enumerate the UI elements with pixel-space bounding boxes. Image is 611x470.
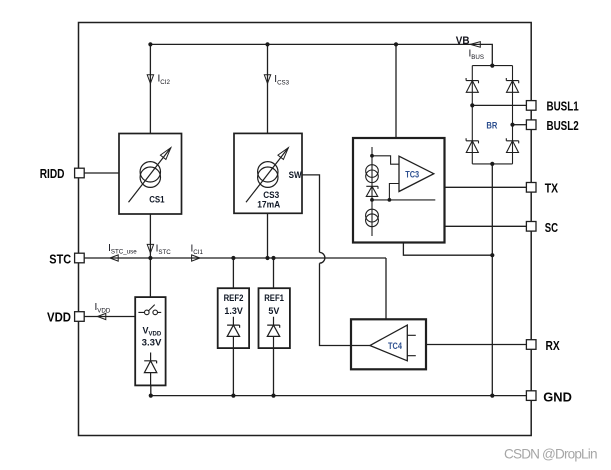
svg-text:REF1: REF1 bbox=[264, 293, 284, 303]
current arrow ISTC (down) bbox=[147, 244, 153, 253]
wire: VVDD bottom to ground rail bbox=[150, 385, 152, 395]
pin BUSL1 pad bbox=[526, 101, 536, 111]
svg-text:RX: RX bbox=[546, 338, 560, 353]
CS1 adjustment arrow bbox=[129, 148, 171, 203]
node: top rail junction at CS1 bbox=[148, 42, 152, 46]
BR branch wires bbox=[472, 66, 512, 164]
current arrow ISTC_use (left) bbox=[110, 255, 118, 261]
TC3 current source I2 bbox=[366, 209, 379, 222]
pin STC pad bbox=[75, 253, 85, 263]
node: TC3 internal top bbox=[370, 154, 374, 158]
CS3 current-source circles bbox=[258, 162, 278, 182]
current arrow ICS3 (down) bbox=[264, 75, 270, 84]
wire: SW net from CS3 to TC4 with hop over STC line bbox=[302, 175, 370, 346]
BR top wire bbox=[472, 65, 512, 67]
TC3 comparator triangle bbox=[399, 156, 434, 191]
node: TC3 internal diode bottom bbox=[370, 198, 374, 202]
CS3 adjustment arrow bbox=[246, 148, 288, 203]
node: STC at CS1 bbox=[148, 256, 152, 260]
wire: REF2 bottom to ground rail bbox=[232, 348, 234, 396]
TC3 internal bias rail bbox=[371, 147, 373, 236]
svg-text:BUSL2: BUSL2 bbox=[547, 118, 579, 133]
svg-text:RIDD: RIDD bbox=[40, 166, 65, 181]
wire: TC3 bottom exit to node bbox=[403, 243, 492, 256]
wire: REF1 bottom to ground rail bbox=[273, 348, 275, 396]
reference REF1 5V bbox=[259, 288, 290, 348]
svg-text:3.3V: 3.3V bbox=[142, 337, 162, 347]
wire: TC3 to TX pin bbox=[445, 186, 527, 188]
reference REF2 1.3V bbox=[218, 288, 249, 348]
CS1 current-source circles bbox=[140, 162, 160, 182]
TC4 comparator triangle bbox=[370, 325, 407, 361]
wire: CS3 bottom to STC node bbox=[267, 213, 269, 258]
node: bridge top bbox=[490, 64, 494, 68]
comparator block TC4 bbox=[351, 319, 426, 369]
wire: BUSL1 to bridge left node bbox=[472, 104, 526, 106]
node: bridge bottom bbox=[490, 162, 494, 166]
diode BR upper-left bbox=[466, 78, 478, 92]
current arrow ICI2 (down) bbox=[147, 75, 153, 84]
pin RIDD pad bbox=[75, 168, 85, 178]
wire: TC3 to SC pin bbox=[445, 225, 527, 227]
wire: bridge bottom vertical to ground rail bbox=[491, 164, 493, 396]
node: ground rail at VVDD bbox=[149, 394, 153, 398]
svg-text:SC: SC bbox=[545, 220, 559, 235]
VVDD zener diode bbox=[144, 353, 157, 386]
node: bridge right (BUSL2) bbox=[510, 123, 514, 127]
node: TC3 internal inverting input bbox=[388, 198, 392, 202]
TC3 inverting input wire bbox=[389, 184, 399, 200]
current arrow ICI1 (right) bbox=[192, 255, 200, 261]
current arrow VB (left on top rail) bbox=[470, 42, 480, 48]
wire: BUSL2 to bridge right node bbox=[513, 124, 527, 126]
TC3 non-inverting input wire bbox=[372, 156, 399, 164]
node: top rail junction at CS3 bbox=[265, 42, 269, 46]
current source CS3 bbox=[234, 133, 302, 213]
wire: TC3 top drop bbox=[395, 44, 397, 138]
diode BR lower-right bbox=[506, 138, 518, 152]
svg-text:BR: BR bbox=[486, 120, 497, 130]
svg-text:CS1: CS1 bbox=[149, 194, 164, 204]
wire: TC4 output to RX pin bbox=[426, 344, 527, 346]
svg-text:REF2: REF2 bbox=[224, 293, 244, 303]
wire: STC horizontal line bbox=[84, 257, 386, 259]
wire: CS1 top drop bbox=[149, 44, 151, 133]
wire: VDD pin to VVDD regulator bbox=[84, 316, 135, 318]
node: ground rail at REF2 bbox=[231, 394, 235, 398]
node: STC at REF1 bbox=[271, 256, 275, 260]
TC3 diode bbox=[366, 186, 378, 196]
diode BR upper-right bbox=[506, 78, 518, 92]
wire: STC node down to VVDD top bbox=[149, 258, 151, 297]
TC4 input stubs bbox=[407, 335, 416, 355]
svg-text:BUSL1: BUSL1 bbox=[547, 99, 579, 114]
pin GND pad bbox=[526, 391, 536, 401]
svg-text:TX: TX bbox=[545, 181, 559, 196]
pin RX pad bbox=[526, 340, 536, 350]
wire: top supply rail bbox=[150, 44, 492, 65]
REF1 zener diode bbox=[267, 317, 280, 348]
diode BR lower-left bbox=[466, 138, 478, 152]
pin BUSL2 pad bbox=[526, 120, 536, 130]
node: ground rail at bridge vertical bbox=[490, 394, 494, 398]
svg-text:TC3: TC3 bbox=[405, 170, 419, 180]
BR bottom wire bbox=[472, 163, 512, 165]
wire: ground rail bbox=[151, 395, 527, 397]
wire: CS3 top drop bbox=[267, 44, 269, 133]
wire: REF2 top to STC line bbox=[232, 258, 234, 288]
pin TX pad bbox=[526, 183, 536, 193]
wire: REF1 top to STC line bbox=[273, 258, 275, 288]
bridge rectifier BR bbox=[466, 66, 519, 164]
TC4 output wire to apex bbox=[351, 345, 370, 347]
TC3 current source I1 bbox=[366, 165, 379, 178]
svg-text:1.3V: 1.3V bbox=[224, 306, 242, 316]
node: top rail junction at TC3 bbox=[394, 42, 398, 46]
wire: STC corner down to TC4 top bbox=[385, 258, 387, 319]
svg-text:STC: STC bbox=[49, 251, 71, 266]
svg-text:VB: VB bbox=[456, 35, 470, 47]
svg-text:CSDN @DropLin: CSDN @DropLin bbox=[504, 447, 598, 462]
svg-text:SW: SW bbox=[289, 170, 302, 180]
svg-text:GND: GND bbox=[543, 389, 572, 404]
outer IC boundary box bbox=[79, 23, 532, 436]
regulator block VVDD 3.3V bbox=[135, 297, 165, 385]
pin SC pad bbox=[526, 222, 536, 232]
node: ground rail at REF1 bbox=[271, 394, 275, 398]
comparator block TC3 bbox=[353, 138, 445, 243]
node: STC at CS3 bbox=[265, 256, 269, 260]
wire: RIDD to CS1 bbox=[84, 172, 119, 174]
current source CS1 bbox=[119, 134, 182, 215]
REF2 zener diode bbox=[227, 317, 240, 348]
svg-text:17mA: 17mA bbox=[257, 199, 280, 209]
current arrow IVDD (left) bbox=[98, 313, 106, 319]
pin VDD pad bbox=[75, 312, 85, 322]
svg-text:TC4: TC4 bbox=[388, 341, 402, 351]
node: STC at REF2 bbox=[231, 256, 235, 260]
TC3 internal reference wire bbox=[372, 199, 435, 201]
VVDD switch S1 bbox=[138, 305, 161, 313]
svg-text:5V: 5V bbox=[268, 306, 279, 316]
node: TC3 bottom to bridge vertical bbox=[490, 253, 494, 257]
wire: CS1 bottom to STC node bbox=[149, 214, 151, 258]
node: bridge left (BUSL1) bbox=[470, 103, 474, 107]
svg-text:VDD: VDD bbox=[47, 310, 71, 325]
